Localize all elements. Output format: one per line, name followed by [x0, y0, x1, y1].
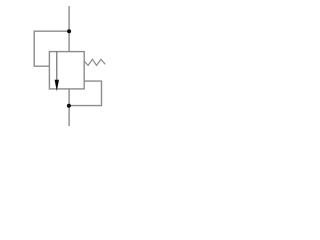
node junction bottom	[67, 104, 71, 108]
wire main vertical bottom (outlet)	[68, 89, 70, 126]
wire pilot line left loop	[34, 31, 69, 66]
valve body V1	[49, 52, 84, 89]
node junction top	[67, 29, 71, 33]
spring	[84, 59, 105, 65]
valve flow path arrow	[55, 52, 59, 92]
wire drain line right loop	[69, 81, 101, 106]
wire main vertical top (inlet)	[68, 6, 70, 52]
